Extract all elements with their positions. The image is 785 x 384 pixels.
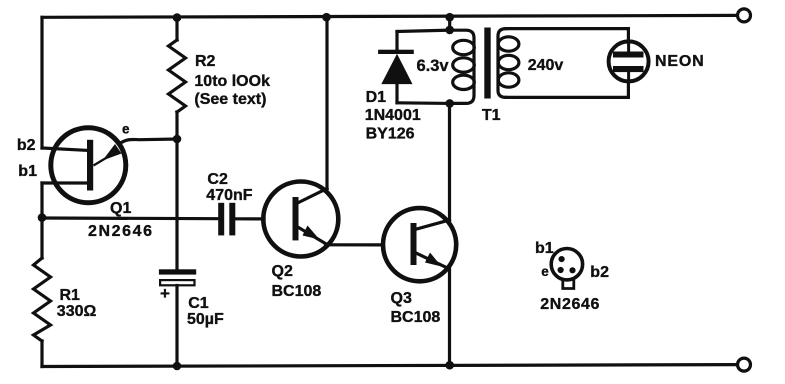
svg-text:2N2646: 2N2646 [540,296,600,313]
svg-text:T1: T1 [482,107,501,124]
svg-text:e: e [122,122,130,137]
svg-text:b1: b1 [18,163,37,180]
svg-text:C2: C2 [207,171,228,188]
svg-text:BC108: BC108 [391,309,441,326]
svg-text:R1: R1 [60,287,81,304]
svg-text:NEON: NEON [655,53,704,70]
svg-text:240v: 240v [528,57,564,74]
svg-text:R2: R2 [195,53,216,70]
svg-text:10to lOOk: 10to lOOk [194,73,270,90]
svg-text:BY126: BY126 [366,126,415,143]
svg-text:2N2646: 2N2646 [88,223,154,240]
svg-text:C1: C1 [188,295,209,312]
svg-text:b2: b2 [17,137,36,154]
svg-text:D1: D1 [366,89,387,106]
svg-text:1N4001: 1N4001 [365,107,421,124]
svg-text:BC108: BC108 [272,283,322,300]
svg-text:b2: b2 [590,264,609,281]
svg-text:e: e [541,264,549,279]
svg-text:b1: b1 [535,240,554,257]
svg-text:470nF: 470nF [206,187,252,204]
svg-text:6.3v: 6.3v [417,57,450,75]
svg-text:Q1: Q1 [110,200,131,217]
svg-text:50µF: 50µF [187,311,224,328]
svg-text:+: + [160,284,170,303]
svg-text:330Ω: 330Ω [57,303,97,320]
svg-text:Q2: Q2 [272,263,293,280]
svg-text:Q3: Q3 [391,290,412,307]
svg-text:(See text): (See text) [194,91,266,108]
